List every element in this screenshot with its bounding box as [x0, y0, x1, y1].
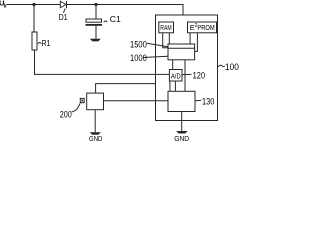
svg-text:1000: 1000: [130, 53, 147, 63]
wire from R1 bottom to A/D converter input: [35, 50, 170, 74]
capacitor C1 bottom plate: [86, 24, 103, 26]
svg-text:200: 200: [60, 109, 72, 119]
junction dot at resistor tap: [32, 3, 35, 6]
svg-text:PROM: PROM: [197, 23, 214, 32]
EEPROM block: [188, 22, 217, 33]
label leader for 1500: [147, 43, 168, 47]
svg-text:C1: C1: [110, 15, 122, 24]
wire top supply rail from Uk to controller top: [7, 5, 184, 16]
junction dot at capacitor tap: [94, 3, 97, 6]
RAM block: [159, 22, 174, 33]
ground symbol under C1: [90, 39, 101, 42]
wire block 130 to ground: [181, 112, 183, 132]
register strip 1500 divider: [168, 47, 195, 49]
wire sensor top to controller edge: [96, 84, 156, 94]
svg-text:R1: R1: [42, 39, 51, 48]
wire A/D bottom center to block 130: [174, 81, 176, 91]
label leader for 200: [72, 103, 81, 112]
wire sensor to ground: [94, 110, 96, 133]
label leader tilde for C1: [104, 21, 108, 22]
sensor block 200: [87, 93, 104, 110]
svg-text:100: 100: [225, 62, 239, 72]
A/D converter block 120: [169, 70, 182, 82]
leader line for D1 label: [63, 9, 65, 13]
label leader for 130: [196, 99, 202, 102]
controller block 100 outline: [156, 15, 218, 121]
label leader for 1000: [143, 56, 168, 57]
wire sensor output to block 130: [104, 100, 169, 102]
ground symbol under block 130: [176, 131, 188, 134]
svg-text:120: 120: [193, 70, 205, 80]
CPU block 1000: [168, 44, 195, 60]
wire RAM left stub to register strip: [163, 33, 168, 48]
label leader for 120: [182, 73, 191, 75]
sensor element square: [80, 98, 85, 103]
wire RAM right stub to CPU top: [168, 33, 170, 44]
label leader tilde for R1: [38, 43, 41, 44]
output block 130: [168, 91, 195, 111]
wire resistor drop from top rail: [33, 5, 35, 33]
svg-text:D1: D1: [59, 13, 68, 22]
wire CPU bottom to block 130 top: [184, 60, 186, 92]
wire CPU bottom to A/D top: [172, 60, 174, 70]
diode D1 triangle: [60, 1, 66, 8]
wire EEPROM left stub to CPU top: [189, 33, 191, 44]
label leader tilde for 100: [218, 65, 225, 67]
svg-text:130: 130: [202, 96, 214, 106]
ground symbol under sensor: [90, 132, 101, 134]
resistor R1 body: [32, 32, 37, 50]
wire C1 to ground: [95, 26, 97, 39]
capacitor C1 top plate: [86, 19, 102, 22]
diode D1 cathode bar: [66, 1, 68, 8]
svg-text:GND: GND: [89, 134, 103, 142]
wire capacitor drop from top rail: [95, 5, 97, 20]
svg-text:RAM: RAM: [160, 23, 171, 32]
svg-text:A/D: A/D: [171, 73, 181, 80]
svg-text:1500: 1500: [130, 40, 147, 50]
svg-text:k: k: [4, 3, 7, 9]
svg-text:GND: GND: [174, 134, 190, 142]
sensor element ring: [81, 99, 84, 102]
wire EEPROM right stub to CPU right edge: [195, 33, 198, 52]
wire A/D bottom left to block 130: [169, 81, 171, 91]
